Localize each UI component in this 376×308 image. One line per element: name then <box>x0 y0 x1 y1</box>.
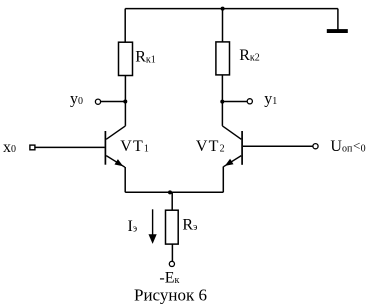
terminal Uop <box>313 144 318 149</box>
ground <box>327 29 348 33</box>
svg-text:Uоп<0: Uоп<0 <box>330 138 365 155</box>
wire VT1 emitter down <box>124 167 126 192</box>
svg-text:Rэ: Rэ <box>182 217 197 234</box>
node top junction <box>221 7 225 11</box>
svg-text:Рисунок 6: Рисунок 6 <box>134 285 207 304</box>
wire bottom rail <box>125 191 223 193</box>
wire rail to Rk1 top <box>124 9 126 43</box>
wire junction to Re <box>171 192 173 210</box>
resistor Rk2 <box>216 42 230 75</box>
svg-text:Rк2: Rк2 <box>239 47 260 64</box>
svg-text:VT1: VT1 <box>120 138 150 155</box>
wire rail to ground <box>337 9 339 30</box>
transistor VT2 <box>222 126 242 167</box>
node emitter junction <box>168 190 172 194</box>
wire VT2 base <box>243 145 313 147</box>
wire Re to terminal <box>171 244 173 261</box>
terminal y1 <box>247 99 252 104</box>
wire VT2 emitter down <box>222 167 224 193</box>
svg-text:Iэ: Iэ <box>128 218 138 235</box>
terminal x0 <box>30 145 35 150</box>
wire Rk1 to VT1 collector <box>124 76 126 126</box>
svg-text:x0: x0 <box>3 139 16 156</box>
wire Rk2 to VT2 collector <box>221 75 223 126</box>
wire y1 <box>222 101 247 103</box>
svg-text:y0: y0 <box>70 91 83 108</box>
wire rail to Rk2 top <box>222 9 224 42</box>
svg-text:VT2: VT2 <box>196 138 226 155</box>
node y1 junction <box>220 100 224 104</box>
terminal y0 <box>95 99 100 104</box>
wire VT1 base <box>35 146 104 148</box>
svg-text:Rк1: Rк1 <box>135 49 156 66</box>
svg-text:-Eк: -Eк <box>159 270 179 287</box>
current arrow Ie <box>149 209 157 244</box>
wire y0 <box>101 101 126 103</box>
wire top supply rail <box>125 8 338 10</box>
node y0 junction <box>123 100 127 104</box>
svg-text:y1: y1 <box>264 91 277 108</box>
transistor VT1 <box>105 126 125 167</box>
terminal -Ek <box>169 261 174 266</box>
resistor Re <box>166 210 179 244</box>
resistor Rk1 <box>119 42 133 75</box>
